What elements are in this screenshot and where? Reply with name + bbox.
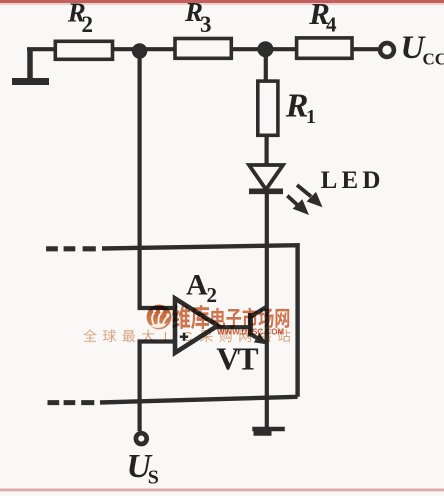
transistor VT base bar [248,313,253,337]
ground bottom bar 1 [252,427,284,431]
dashed stub upper-left [46,246,96,251]
ground bottom bar 2 [254,431,272,436]
terminal Us [136,433,147,444]
op-amp A2 triangle [175,298,218,352]
svg-text:R: R [285,88,309,125]
resistor R2 [55,41,112,59]
svg-text:LED: LED [321,167,385,194]
resistor R4 [297,38,352,58]
wire upper rail to right loop down [102,245,298,397]
svg-text:3: 3 [200,12,212,37]
svg-text:C: C [183,329,192,344]
svg-text:S: S [148,467,159,489]
resistor R3 [175,39,231,59]
svg-text:CC: CC [423,49,444,68]
node junction right [257,41,273,57]
svg-text:1: 1 [306,106,316,128]
wire non-inverting input from Us line [140,342,173,432]
wire R1 to LED anode [265,135,269,166]
svg-text:WWW.DZSC.COM: WWW.DZSC.COM [217,328,284,337]
resistor R1 [258,81,278,135]
svg-text:I: I [164,329,168,344]
ground top-left stub [27,49,33,79]
svg-text:4: 4 [326,13,337,37]
wire bottom rail [100,397,298,403]
svg-text:VT: VT [216,341,258,377]
ground top-left bar [12,78,49,85]
dashed stub lower-left [48,400,95,405]
LED triangle [249,165,283,190]
wire node right down into R1 [264,49,268,82]
watermark slogan 全球最大IC采购网络站 [83,329,96,341]
node junction left [132,43,147,58]
op-amp plus sign [180,333,188,341]
transistor VT collector [250,306,267,317]
LED cathode bar [249,189,283,195]
LED emission arrow 1 [297,185,311,197]
terminal Ucc [380,43,394,57]
wire top supply rail [27,47,378,51]
svg-text:2: 2 [207,283,218,307]
wire op-amp output to VT base [216,325,248,329]
svg-text:A: A [186,268,208,301]
wire LED cathode down through VT to ground [265,193,269,428]
LED emission arrow 2 [287,196,298,206]
watermark text 电子市场网 [211,308,225,328]
wire node left down to op-amp inverting input [140,51,173,308]
watermark text 维库 [172,305,190,329]
transistor VT emitter with arrow [250,334,258,339]
bottom red line [0,489,444,492]
svg-text:2: 2 [82,12,94,37]
top red banner [0,0,444,3]
